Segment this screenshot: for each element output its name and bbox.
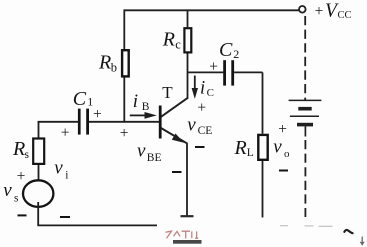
svg-text:+: + <box>120 125 129 142</box>
svg-text:L: L <box>247 147 254 159</box>
label RL <box>234 137 254 159</box>
svg-text:R: R <box>234 137 247 159</box>
svg-text:T: T <box>162 83 173 102</box>
wire C2 right <box>234 71 262 73</box>
svg-text:v: v <box>273 136 282 157</box>
svg-text:C: C <box>207 87 214 99</box>
wire Rb top <box>123 10 125 50</box>
label vCE <box>187 115 212 137</box>
ground bar <box>173 240 202 244</box>
svg-text:v: v <box>187 115 196 136</box>
label C1 <box>73 88 94 110</box>
svg-text:B: B <box>142 101 150 113</box>
label C2 <box>219 39 239 61</box>
svg-text:CC: CC <box>338 10 352 21</box>
label vo <box>273 136 290 159</box>
minus vo <box>279 170 288 172</box>
svg-text:i: i <box>200 79 205 99</box>
svg-text:+: + <box>315 3 324 20</box>
transistor collector diagonal <box>161 98 188 117</box>
svg-text:R: R <box>12 138 25 160</box>
resistor Rb <box>122 50 129 76</box>
svg-text:c: c <box>175 38 181 52</box>
svg-text:i: i <box>65 169 68 181</box>
svg-text:+: + <box>61 125 70 142</box>
mark down arrow <box>360 237 365 246</box>
red watermark strokes <box>166 231 199 238</box>
svg-text:+: + <box>17 168 26 185</box>
svg-text:2: 2 <box>233 47 239 61</box>
node emitter bottom tick <box>181 215 194 217</box>
node Vcc terminal <box>299 6 306 13</box>
svg-text:i: i <box>133 91 138 112</box>
wire dashed battery to ground <box>304 140 306 217</box>
svg-text:+: + <box>209 59 218 76</box>
svg-text:+: + <box>197 100 206 117</box>
wire RL top <box>262 72 264 133</box>
mark swoosh <box>344 230 352 233</box>
svg-text:v: v <box>137 141 146 162</box>
minus vBE <box>172 171 182 173</box>
label iB <box>133 91 150 113</box>
transistor T base bar <box>159 106 162 139</box>
svg-text:R: R <box>162 29 175 51</box>
battery V <box>289 100 322 136</box>
resistor Rc <box>184 28 191 52</box>
label iC <box>200 79 214 100</box>
label +Vcc <box>315 1 352 22</box>
wire collector vertical <box>187 54 189 99</box>
wire base right segment <box>89 121 160 123</box>
wire base left segment <box>38 121 78 123</box>
minus vs <box>18 214 27 216</box>
wire Rs to source <box>38 165 40 180</box>
label vi <box>54 158 68 182</box>
svg-text:CE: CE <box>198 125 213 137</box>
capacitor C2 <box>223 60 234 85</box>
source vs circle <box>23 180 53 207</box>
wire dashed Vcc to battery <box>304 16 306 100</box>
wire Rc top <box>187 10 189 28</box>
wire bottom rail <box>37 224 157 226</box>
svg-text:BE: BE <box>147 152 162 164</box>
faint gray remnants bottom right <box>280 225 333 228</box>
svg-text:b: b <box>111 60 117 74</box>
svg-text:C: C <box>219 39 233 61</box>
svg-text:R: R <box>98 52 111 74</box>
wire source to bottom rail <box>37 202 39 225</box>
arrow iB <box>130 112 157 119</box>
resistor RL <box>258 135 267 160</box>
wire C2 left <box>188 71 224 73</box>
wire Rb bottom <box>123 77 125 122</box>
svg-text:o: o <box>284 148 290 160</box>
label Rb <box>98 52 117 75</box>
wire RL bottom <box>262 161 264 218</box>
resistor Rs <box>33 139 44 164</box>
label vs <box>3 180 19 205</box>
capacitor C1 <box>78 109 89 135</box>
label Rs <box>12 138 30 161</box>
minus vi <box>60 216 70 218</box>
wire Rs top <box>38 121 40 138</box>
transistor emitter diagonal with arrow <box>161 128 187 144</box>
svg-text:v: v <box>3 180 12 201</box>
label vBE <box>137 141 162 164</box>
svg-text:C: C <box>73 88 87 110</box>
wire top rail <box>124 9 299 11</box>
svg-text:s: s <box>14 192 19 204</box>
minus vCE <box>195 146 205 148</box>
svg-text:+: + <box>93 106 102 123</box>
arrow iC <box>192 76 198 99</box>
svg-text:s: s <box>25 149 30 161</box>
label Rc <box>162 29 182 52</box>
wire emitter vertical <box>186 143 188 215</box>
svg-text:v: v <box>54 158 63 179</box>
